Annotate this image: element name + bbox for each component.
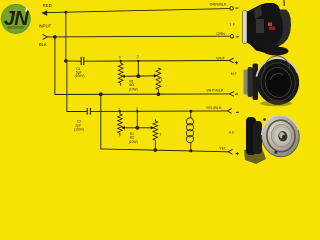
svg-text:2: 2 — [137, 55, 139, 59]
svg-text:GRN/BLK: GRN/BLK — [210, 2, 227, 7]
terminal circle GRN/BLK — [230, 7, 233, 10]
wire vertical BLK drop — [54, 37, 56, 95]
resistor R2 element — [118, 112, 123, 137]
terminal circle GRN — [230, 35, 233, 38]
terminal fork YEL — [228, 150, 232, 155]
polarity plus after YEL — [236, 152, 239, 155]
svg-text:YEL: YEL — [219, 145, 227, 150]
wiper arrowhead mid right — [154, 74, 158, 78]
wire vertical from RED bus to C1 — [65, 12, 67, 61]
svg-text:1: 1 — [159, 133, 161, 137]
svg-text:INPUT: INPUT — [39, 23, 52, 28]
polarity plus after WHT — [235, 61, 238, 64]
speaker photo midrange M.F — [244, 54, 304, 109]
svg-text:M.F: M.F — [231, 72, 238, 76]
resistor element tweeter shunt — [153, 120, 158, 151]
svg-text:L.F: L.F — [230, 23, 236, 27]
wire RED bus — [42, 9, 229, 13]
junction dot coil top — [189, 110, 192, 113]
svg-text:YEL/BLK: YEL/BLK — [206, 105, 222, 110]
svg-text:electronics: electronics — [8, 25, 25, 29]
capacitor C1 plates — [81, 57, 84, 64]
svg-text:(10W): (10W) — [129, 140, 138, 144]
svg-text:(100V): (100V) — [75, 74, 85, 78]
wire BLK bus — [47, 35, 230, 38]
svg-text:GRN: GRN — [216, 31, 225, 36]
terminal fork WHT/BLK — [229, 92, 233, 96]
inductor L1 coil — [186, 111, 193, 151]
wire C1 input stub — [66, 60, 81, 62]
junction dot RED bus — [65, 11, 68, 14]
junction dot tweeter wiper — [135, 126, 139, 130]
wire mid ground rail WHT/BLK — [55, 93, 229, 96]
wiper arrowhead mid left — [121, 75, 125, 79]
wiper arrowhead tweeter left — [121, 126, 125, 130]
polarity dash after GRN — [236, 36, 239, 38]
junction dot terminal 3 mid — [120, 60, 122, 62]
wiper arrowhead tweeter right — [151, 126, 155, 130]
junction dot BLK bus — [53, 35, 57, 39]
junction dot coil bottom — [189, 149, 192, 152]
terminal fork YEL/BLK — [227, 109, 231, 113]
svg-text:2: 2 — [136, 107, 138, 111]
svg-text:RED: RED — [43, 3, 52, 8]
junction dot tweeter shunt ground — [154, 148, 158, 152]
resistor R1 element — [118, 61, 123, 85]
svg-text:WHT: WHT — [216, 56, 225, 61]
wire tweeter tap vertical (terminal 2) — [136, 111, 138, 128]
polarity dash after YEL/BLK — [236, 111, 239, 113]
capacitor C2 plates — [87, 108, 90, 114]
wire tweeter signal line to YEL/BLK — [91, 110, 228, 113]
junction dot mid wiper — [136, 74, 140, 78]
speaker photo tweeter H.F — [244, 113, 302, 164]
junction dot mid shunt ground — [157, 92, 161, 96]
polarity dash after WHT/BLK — [235, 93, 238, 95]
svg-text:(100V): (100V) — [74, 128, 84, 132]
wire mid signal line to WHT — [84, 60, 229, 63]
wire bottom rail YEL — [101, 149, 228, 152]
svg-text:(10W): (10W) — [129, 87, 138, 91]
svg-text:WHT/BLK: WHT/BLK — [206, 87, 224, 92]
junction dot ground rail — [99, 92, 103, 96]
svg-text:1: 1 — [161, 78, 163, 82]
svg-text:H.F: H.F — [229, 130, 236, 134]
polarity dash after GRN/BLK — [235, 7, 238, 9]
input terminal BLK (open fork) — [43, 35, 48, 40]
junction dot C1 node — [64, 59, 68, 63]
wire vertical ground drop to bottom rail — [100, 94, 102, 149]
junction dot terminal 2 tweeter top — [136, 110, 138, 112]
wire mid wiper bar — [124, 75, 156, 78]
svg-text:BLK: BLK — [39, 42, 47, 47]
terminal fork WHT — [229, 58, 233, 62]
svg-text:3: 3 — [119, 55, 121, 59]
resistor element mid shunt — [156, 68, 161, 94]
speaker photo woofer L.F — [243, 0, 292, 56]
svg-text:3: 3 — [118, 107, 120, 111]
junction dot terminal 2 mid top — [137, 60, 139, 62]
wire tweeter wiper bar — [124, 127, 153, 129]
wire mid tap vertical (terminal 2) — [137, 61, 139, 76]
logo JN badge — [1, 4, 31, 34]
input terminal RED (solid arrow) — [42, 10, 47, 16]
wire vertical feed to C2 — [67, 61, 87, 112]
junction dot terminal 3 tweeter — [119, 110, 121, 112]
